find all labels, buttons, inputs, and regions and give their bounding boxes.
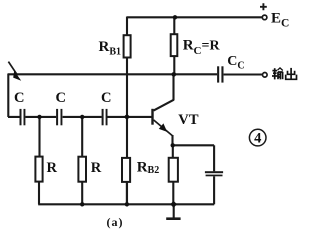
svg-text:CC: CC — [227, 54, 244, 71]
svg-text:RB1: RB1 — [99, 39, 122, 57]
svg-text:R: R — [91, 160, 102, 176]
svg-text:(a): (a) — [107, 215, 124, 229]
svg-text:EC: EC — [271, 11, 289, 30]
svg-text:RB2: RB2 — [137, 160, 160, 177]
svg-text:4: 4 — [254, 131, 261, 147]
svg-text:C: C — [14, 90, 24, 106]
svg-text:RC=R: RC=R — [183, 38, 221, 58]
svg-text:VT: VT — [178, 112, 199, 128]
svg-text:C: C — [56, 90, 66, 106]
svg-text:C: C — [101, 90, 111, 106]
svg-text:R: R — [47, 160, 58, 176]
